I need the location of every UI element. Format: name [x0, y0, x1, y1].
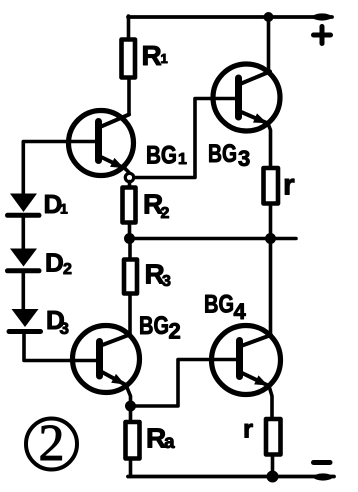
negative terminal dot — [314, 473, 333, 480]
svg-text:a: a — [164, 432, 175, 453]
label R4 — [146, 423, 175, 454]
label BG1 — [146, 142, 187, 170]
svg-text:r: r — [283, 169, 295, 202]
wire BG1 base to diode chain — [23, 142, 95, 194]
svg-text:1: 1 — [178, 151, 187, 168]
wire junction to R4 — [129, 406, 133, 422]
wire node to R2 — [128, 182, 132, 189]
figure number 2 — [26, 415, 77, 472]
- symbol — [314, 460, 331, 465]
svg-text:3: 3 — [162, 273, 171, 290]
wire r lower to bottom rail — [271, 455, 275, 477]
wire node to BG3 base — [134, 99, 235, 178]
diode D2 — [8, 249, 40, 271]
wire r upper to mid junction — [269, 204, 273, 239]
wire D2 to D3 — [21, 273, 25, 309]
node BG2 emitter junction — [125, 401, 136, 412]
transistor BG4 — [212, 326, 281, 395]
svg-text:1: 1 — [60, 201, 68, 217]
svg-text:1: 1 — [161, 51, 168, 66]
label R3 — [145, 259, 172, 291]
node bottom rail junction — [267, 471, 279, 483]
+ symbol — [314, 27, 331, 44]
wire D1 to D2 — [21, 218, 25, 249]
wire mid junction to BG4 collector — [269, 239, 273, 337]
svg-text:3: 3 — [238, 146, 250, 171]
svg-text:3: 3 — [60, 319, 69, 338]
wire junction to BG4 base — [135, 360, 236, 407]
svg-text:4: 4 — [234, 299, 247, 324]
transistor BG3 — [213, 64, 280, 131]
wire top supply rail — [128, 15, 332, 19]
wire BG3 emitter to resistor r — [268, 124, 271, 169]
node mid-left junction — [124, 233, 135, 244]
resistor r upper — [264, 168, 279, 204]
transistor BG2 — [73, 326, 140, 393]
label D3 — [46, 305, 69, 338]
svg-text:R: R — [142, 40, 162, 71]
label r lower — [243, 414, 253, 444]
svg-text:D: D — [45, 248, 64, 278]
resistor R1 — [122, 40, 136, 78]
svg-text:2: 2 — [63, 261, 72, 278]
wire BG1 emitter to node — [125, 169, 129, 173]
wire bottom supply rail — [128, 475, 334, 479]
svg-text:BG: BG — [208, 140, 237, 168]
wire R1 to BG1 collector — [127, 78, 131, 115]
svg-text:BG: BG — [204, 291, 234, 319]
label BG2 — [139, 312, 181, 344]
svg-text:2: 2 — [39, 415, 65, 472]
wire mid horizontal — [130, 237, 297, 241]
wire R3 to BG2 collector — [128, 294, 132, 337]
wire rail to R1 — [127, 16, 131, 40]
svg-text:2: 2 — [169, 319, 181, 344]
label BG3 — [208, 140, 250, 171]
wire BG3 collector to top rail — [267, 16, 271, 73]
resistor R2 — [123, 188, 136, 223]
transistor BG1 — [69, 111, 134, 176]
resistor r lower — [266, 419, 281, 455]
wire mid junction to R3 — [128, 239, 132, 261]
node mid-right junction — [265, 233, 276, 244]
wire BG2 emitter to junction — [126, 385, 131, 406]
svg-text:r: r — [243, 414, 253, 444]
node top rail / BG3 collector junction — [264, 12, 274, 22]
label BG4 — [204, 291, 247, 325]
diode D1 — [8, 194, 40, 216]
wire D3 to BG2 base — [24, 334, 96, 361]
label R1 — [142, 40, 168, 71]
label r upper — [283, 169, 295, 202]
resistor R3 — [124, 260, 137, 294]
node BG1 emitter (open circle) — [125, 173, 133, 181]
svg-text:BG: BG — [139, 312, 169, 340]
resistor R4 — [126, 422, 140, 459]
svg-text:BG: BG — [146, 142, 177, 170]
label D2 — [45, 248, 72, 279]
positive terminal dot — [313, 13, 332, 20]
wire R4 to bottom rail — [129, 459, 133, 477]
wire R2 to mid junction — [128, 223, 132, 239]
svg-text:2: 2 — [161, 205, 170, 222]
label D1 — [44, 189, 69, 219]
wire BG4 emitter to r lower — [269, 386, 272, 419]
label R2 — [143, 189, 170, 223]
diode D3 — [9, 309, 41, 332]
